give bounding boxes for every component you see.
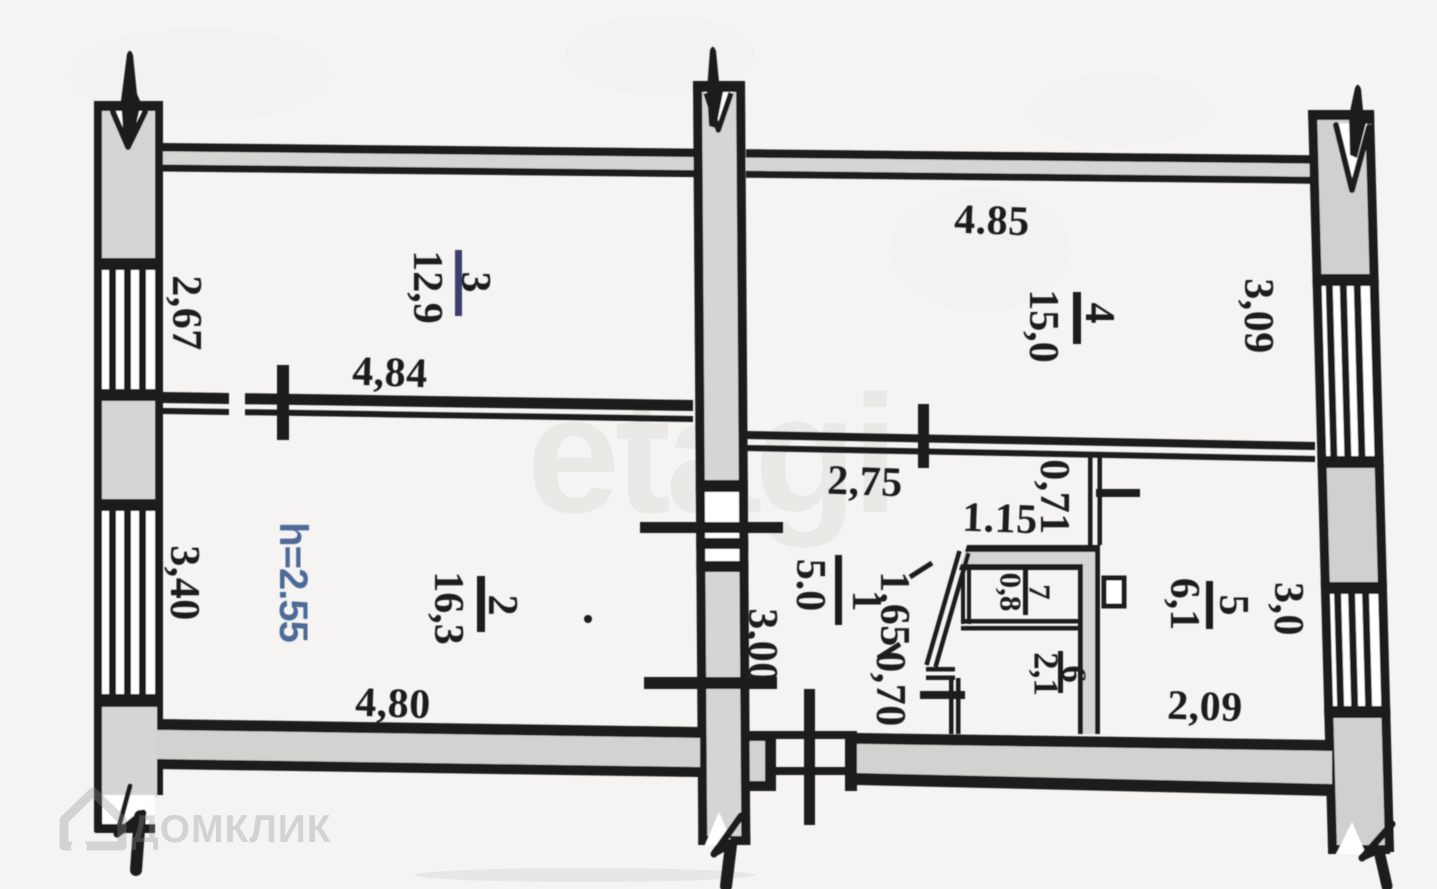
wall between room 4 and hall/kitchen	[746, 431, 1315, 450]
left wall grey block 3	[102, 707, 157, 797]
thin wall of niche 0,71	[1088, 452, 1093, 545]
svg-text:3,0: 3,0	[1265, 582, 1311, 636]
dim tick 0,71	[1096, 489, 1140, 497]
svg-text:4: 4	[1076, 303, 1122, 324]
svg-text:6: 6	[1055, 665, 1094, 683]
svg-text:3,40: 3,40	[161, 545, 207, 621]
entry door dim tick	[804, 689, 815, 825]
bottom wall of room 2	[157, 719, 698, 738]
svg-text:4,84: 4,84	[351, 349, 428, 398]
door tick through column	[640, 522, 783, 533]
svg-text:6,1: 6,1	[1161, 578, 1207, 631]
left wall grey block 2	[102, 401, 155, 499]
room 7 bottom wall	[961, 619, 1083, 624]
bottom wall right segment	[857, 733, 1330, 751]
left wall band below window 2	[94, 694, 163, 707]
svg-text:0,71: 0,71	[1031, 459, 1077, 535]
svg-text:2: 2	[479, 595, 525, 616]
svg-text:7: 7	[1023, 584, 1058, 600]
dim tick 0,70	[920, 691, 965, 699]
left exterior wall: outline edges	[94, 101, 102, 832]
wall between rooms 3 and 2	[163, 392, 229, 404]
break mark top-left	[112, 111, 147, 150]
kitchen door leaf	[1104, 578, 1124, 606]
entry door opening	[776, 731, 845, 739]
svg-text:ДОМКЛИК: ДОМКЛИК	[131, 808, 332, 851]
jog at diagonal bottom	[926, 667, 955, 672]
dim tick 3,00	[644, 677, 777, 689]
center load-bearing column	[693, 81, 750, 845]
room 7 left wall	[961, 566, 965, 624]
svg-text:16,3: 16,3	[425, 571, 471, 645]
break mark top-right	[1334, 123, 1371, 193]
svg-text:0,70: 0,70	[867, 651, 913, 727]
wall right of rooms 7/6	[1078, 566, 1083, 734]
left wall band above window 2	[94, 499, 163, 511]
wall left of room 6	[949, 678, 954, 734]
svg-text:4.85: 4.85	[953, 197, 1030, 246]
watermark Domclick house icon	[64, 792, 122, 846]
svg-text:2,75: 2,75	[826, 458, 903, 507]
left wall bottom white stub	[103, 795, 155, 824]
window W2 on left wall	[102, 511, 155, 694]
break mark top-center	[707, 47, 723, 128]
left wall band below window 1	[94, 389, 163, 401]
break mark bottom-right	[1328, 845, 1390, 854]
svg-text:3: 3	[452, 272, 498, 293]
break mark bottom-center	[705, 812, 733, 845]
slash ticks 1,65	[910, 563, 932, 577]
svg-text:15,0: 15,0	[1020, 289, 1066, 363]
svg-text:1,65: 1,65	[871, 571, 917, 647]
svg-text:h=2.55: h=2.55	[271, 522, 315, 642]
window W4 right wall	[1330, 594, 1381, 706]
left wall bottom stub cap	[95, 824, 155, 833]
svg-text:4,80: 4,80	[354, 680, 431, 729]
bottom wall of hall: segment at column	[746, 731, 776, 741]
window W1 on left wall	[102, 270, 155, 389]
room 7 top wall	[965, 545, 1100, 552]
window W3 right wall	[1322, 286, 1375, 456]
door cap between room2 and hall	[696, 480, 748, 492]
top exterior wall left segment	[163, 143, 695, 157]
svg-text:2,09: 2,09	[1166, 683, 1243, 732]
diagonal wall of hall	[927, 551, 960, 665]
top exterior wall right segment	[746, 149, 1312, 164]
svg-text:12,9: 12,9	[404, 250, 450, 324]
svg-text:5: 5	[1210, 595, 1256, 616]
left wall band above window 1	[94, 258, 163, 270]
svg-text:3,09: 3,09	[1235, 278, 1281, 354]
svg-text:5.0: 5.0	[787, 559, 833, 612]
svg-text:2,67: 2,67	[163, 275, 209, 351]
right exterior wall	[1308, 110, 1394, 852]
svg-text:1.15: 1.15	[961, 495, 1038, 544]
left wall grey block 1	[102, 111, 155, 258]
dim tick 2,75	[918, 404, 929, 468]
svg-text:3,00: 3,00	[739, 608, 785, 684]
break mark bottom-left	[117, 786, 143, 870]
dim tick on wall 3/2	[277, 365, 289, 440]
